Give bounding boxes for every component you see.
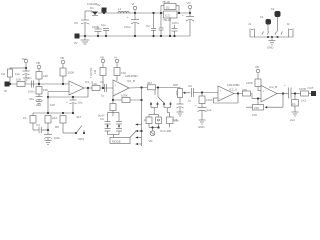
volume pot VR1 [173,83,191,98]
regulator IC3 78L05 [160,0,180,22]
resistor R8 [55,116,66,130]
terminal IN [4,82,10,94]
wire feedback4 [265,92,284,108]
svg-text:10K: 10K [175,90,179,95]
svg-text:22K: 22K [242,88,247,92]
svg-text:+: + [263,89,265,93]
capacitor C12 series [100,80,107,98]
ground output [290,112,299,122]
op-amp IC1_A [69,80,93,95]
svg-text:D1: D1 [90,6,94,10]
terminal V+ [114,56,119,68]
svg-text:1K: 1K [23,116,27,120]
svg-text:100n: 100n [172,21,179,25]
wire r6 bottom [33,123,39,130]
jack K2 [271,7,281,17]
battery terminal 9V [97,3,109,37]
ground io [267,37,276,50]
svg-text:IN: IN [4,89,7,93]
terminal VB4 [255,65,260,79]
capacitor C5 [92,25,102,37]
capacitor C6 decoupling [15,68,30,82]
resistor R12 [121,94,130,103]
resistor R9 [92,82,100,91]
diode D5 [167,117,178,124]
svg-text:J2: J2 [287,22,290,26]
svg-text:IC2_B: IC2_B [269,85,277,89]
mode selector box [110,131,136,144]
terminal VI [132,2,137,14]
wire io bus [255,36,289,38]
svg-text:4K7: 4K7 [76,115,82,119]
svg-text:VB: VB [255,65,259,69]
svg-text:L1: L1 [118,7,122,11]
wire feedback1 [47,88,88,119]
svg-text:1u: 1u [101,94,105,98]
svg-text:2u2: 2u2 [207,108,212,112]
svg-text:D2: D2 [166,6,170,10]
capacitor C4 polarized output [182,13,194,36]
LED VR [149,128,172,143]
svg-text:+: + [220,89,222,93]
capacitor C14 [105,129,111,135]
svg-text:VB: VB [36,61,40,65]
svg-text:10K: 10K [153,90,157,95]
wire input [10,83,70,85]
svg-text:IC2_A: IC2_A [229,88,237,92]
terminal VB stage1 [36,61,41,72]
resistor R7 [45,116,58,124]
resistor R11 [114,68,126,82]
resistor R2 [16,78,25,87]
op-amp IC2_A [218,83,240,101]
svg-text:+: + [66,100,68,104]
svg-text:+: + [127,15,129,19]
svg-text:LM1458D: LM1458D [125,74,138,78]
svg-text:10K: 10K [16,78,21,82]
capacitor C13 [105,122,111,129]
svg-text:VI: VI [132,2,135,6]
wire gain ladder [33,97,74,116]
resistor R1 [1,68,13,85]
wire output1 [84,87,113,89]
svg-text:GND: GND [267,46,273,50]
diode D3 [144,117,153,124]
svg-text:-: - [115,91,116,95]
resistor R3 [36,72,48,86]
svg-text:100u: 100u [54,136,61,140]
jack switch contacts [262,17,283,35]
resistor R18 to ground [292,94,299,113]
svg-text:9V: 9V [97,3,101,7]
wire regulator ground pin [169,17,171,37]
resistor R15 [199,93,213,104]
svg-text:OUT: OUT [308,86,314,90]
svg-text:100K: 100K [246,81,253,85]
inductor L1 [118,7,129,13]
svg-text:+: + [284,83,286,87]
svg-text:J1: J1 [248,22,251,26]
capacitor C8 to ground [29,97,43,106]
ground [74,11,89,36]
resistor R16 [242,88,251,96]
resistor R4 [36,84,48,97]
svg-text:78L05: 78L05 [162,0,170,4]
svg-text:R8: R8 [55,125,59,129]
capacitor C2 [146,12,164,37]
svg-text:GND: GND [198,125,204,129]
svg-text:100K: 100K [68,71,75,75]
svg-text:+: + [195,104,197,108]
svg-text:-: - [263,97,264,101]
svg-text:VR: VR [149,139,153,143]
svg-text:2u2: 2u2 [290,118,295,122]
svg-text:1K: 1K [292,102,296,106]
wire cap pair split [98,113,119,122]
op-amp IC2_B [261,85,277,102]
wire inverting node [257,97,259,104]
svg-text:VB: VB [100,56,104,60]
svg-text:C2: C2 [146,24,150,28]
ground stage3 [198,108,212,129]
svg-text:9V: 9V [22,57,26,61]
svg-text:V+: V+ [114,56,118,60]
capacitor C7 series [28,76,35,94]
svg-text:-: - [220,96,221,100]
jack K1 [260,15,271,25]
svg-text:10u: 10u [78,101,83,105]
switch S1 [63,123,85,141]
wire top rail [99,12,190,14]
capacitor C15b [116,122,122,129]
svg-text:10K: 10K [43,88,48,92]
svg-text:IC1_B: IC1_B [127,79,135,83]
terminal 9V stage1 [22,57,28,69]
svg-text:10K: 10K [50,103,55,107]
resistor R6 [23,116,36,124]
svg-text:C6: C6 [100,117,104,121]
svg-text:+: + [71,83,73,87]
svg-text:1K2: 1K2 [301,99,307,103]
svg-text:C5: C5 [100,80,104,84]
svg-text:+: + [115,83,117,87]
svg-text:2K2: 2K2 [52,116,58,120]
svg-text:100R: 100R [299,87,306,91]
svg-text:-: - [71,91,72,95]
wire led row [149,124,170,129]
svg-text:10K: 10K [92,82,97,86]
wire jog [252,94,261,99]
connector J1 [248,22,255,37]
capacitor C10 [36,123,49,133]
terminal VO [187,1,192,14]
capacitor C9 polarized [66,96,83,113]
svg-text:10u: 10u [15,72,20,76]
svg-text:SW1: SW1 [78,137,85,141]
wire to clip diodes [149,108,170,117]
terminal OUT [308,86,317,96]
gain pot VR2 [246,105,264,118]
connector J2 [287,22,294,37]
svg-text:100u: 100u [124,25,131,29]
capacitor C18 series output [284,83,301,99]
diode D1 [85,2,99,16]
wire feedback3 [214,92,240,103]
svg-text:10u: 10u [174,119,179,123]
svg-text:10K: 10K [252,113,257,117]
svg-text:Out LED: Out LED [160,129,171,133]
svg-text:+: + [182,13,184,17]
svg-text:VB: VB [60,56,64,60]
wire bottom rail [79,35,190,37]
svg-text:100n: 100n [28,90,35,94]
resistor R5 [60,68,74,85]
svg-text:100K: 100K [121,94,128,98]
wire output2 [129,86,148,88]
wire output3 [234,93,252,95]
wire mode box [108,135,120,138]
svg-text:1M: 1M [1,72,6,76]
resistor R14 [147,81,180,90]
capacitor C1 polarized input [124,13,139,37]
capacitor C16 series [188,84,219,103]
svg-text:LM1458D: LM1458D [227,83,240,87]
wire output4 [277,93,289,95]
svg-text:1n: 1n [144,118,148,122]
resistor R10 [93,68,106,89]
svg-text:C9: C9 [188,84,192,88]
svg-text:C8: C8 [74,21,78,25]
svg-text:K1: K1 [260,15,264,19]
wire feedback2 [112,88,143,102]
resistor R13 [110,100,116,116]
terminal 0V [74,34,80,46]
svg-text:47u: 47u [29,97,34,101]
terminal VB2 [60,56,65,68]
capacitor C17 polarized [195,104,207,121]
op-amp IC1_B [113,74,138,96]
svg-text:IC3: IC3 [165,14,170,18]
svg-text:1M: 1M [93,69,97,74]
svg-text:C4: C4 [36,123,40,127]
svg-text:22K: 22K [43,74,48,78]
svg-text:1u: 1u [188,99,192,103]
resistor R19 [299,87,311,103]
svg-text:10u: 10u [101,23,106,27]
svg-text:C1: C1 [28,76,32,80]
capacitor C15 pot ground [174,98,184,123]
svg-text:22K: 22K [254,106,259,110]
ground bottom rail [81,35,90,44]
svg-text:MODE: MODE [112,140,121,144]
terminal VB3 [100,56,105,68]
svg-text:4K7: 4K7 [147,81,153,85]
wire bias [10,67,26,69]
capacitor C3 [172,21,179,37]
selector ladder [136,100,143,146]
switch S2 [153,88,164,103]
svg-text:0V: 0V [74,41,78,45]
svg-text:100n: 100n [92,25,99,29]
svg-text:100K: 100K [206,98,213,102]
svg-text:2K2: 2K2 [36,103,42,107]
switch contacts row [150,102,172,108]
capacitor C16b [116,129,122,135]
capacitor C11 polarized 100u [44,123,60,145]
resistor R17 [246,79,261,91]
diode D4 [156,117,162,124]
svg-text:K2: K2 [271,7,275,11]
svg-text:50K: 50K [173,83,178,87]
